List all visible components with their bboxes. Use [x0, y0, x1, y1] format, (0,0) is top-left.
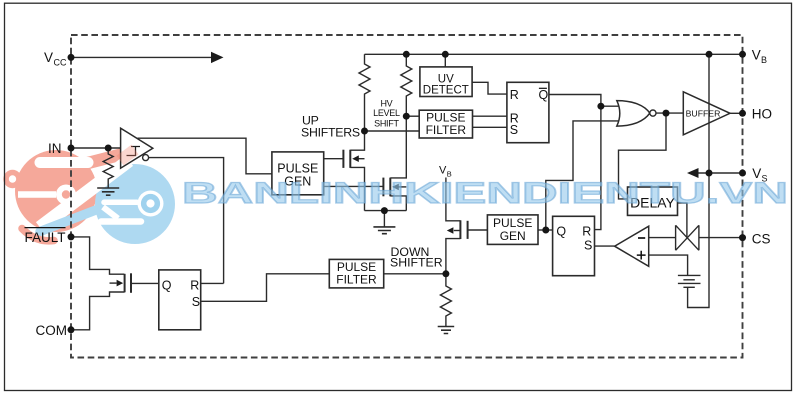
svg-text:BUFFER: BUFFER — [686, 108, 721, 118]
svg-text:CC: CC — [54, 58, 67, 68]
svg-text:PULSE: PULSE — [277, 162, 318, 176]
svg-text:CS: CS — [752, 231, 771, 246]
svg-text:BANLINHKIENDIENTU.VN: BANLINHKIENDIENTU.VN — [182, 177, 788, 210]
svg-text:Q: Q — [539, 88, 549, 102]
svg-text:IN: IN — [48, 141, 62, 156]
svg-text:V: V — [439, 165, 447, 177]
svg-text:DETECT: DETECT — [423, 85, 469, 97]
svg-text:SHIFT: SHIFT — [374, 118, 399, 128]
svg-text:V: V — [44, 50, 53, 65]
svg-text:HO: HO — [752, 106, 772, 121]
svg-text:S: S — [192, 295, 200, 309]
svg-text:SHIFTERS: SHIFTERS — [301, 125, 360, 139]
svg-text:HV: HV — [380, 98, 392, 108]
svg-text:Q: Q — [162, 278, 172, 292]
svg-text:R: R — [582, 224, 591, 238]
svg-text:R: R — [510, 88, 519, 102]
svg-text:COM: COM — [36, 323, 68, 338]
svg-text:SHIFTER: SHIFTER — [390, 256, 443, 270]
svg-text:GEN: GEN — [500, 229, 526, 243]
svg-text:B: B — [761, 55, 767, 65]
svg-text:S: S — [584, 239, 592, 253]
svg-text:FAULT: FAULT — [25, 230, 66, 245]
svg-text:Q: Q — [556, 224, 566, 238]
svg-text:FILTER: FILTER — [336, 273, 377, 287]
svg-text:V: V — [752, 48, 761, 63]
svg-text:FILTER: FILTER — [426, 123, 467, 137]
svg-text:S: S — [510, 123, 518, 137]
svg-text:R: R — [190, 278, 199, 292]
svg-text:LEVEL: LEVEL — [373, 108, 400, 118]
